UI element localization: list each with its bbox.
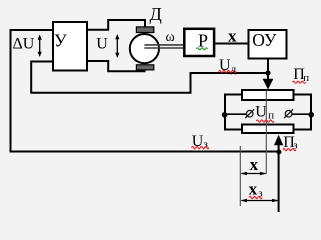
potentiometer Pp: top bar [242,90,294,100]
arrow dU double vertical [38,35,42,58]
node: right junction dot [308,112,314,118]
dimension x arrow [241,172,267,176]
terminal symbol right [284,109,293,118]
svg-text:ОУ: ОУ [252,30,277,50]
arrow U double vertical [115,34,119,58]
wire: left input loop and Uz line [11,30,280,152]
squiggle green under R [197,48,208,50]
wire: right bracket joining both bars [295,95,312,130]
amplifier box U (У) [53,22,87,71]
wire: x from R to OU [215,43,248,45]
svg-text:д: д [231,63,237,75]
wire: right tap to terminal [292,113,311,115]
dimension xz arrow [241,199,279,203]
svg-text:U: U [255,104,267,121]
svg-text:ΔU: ΔU [13,36,35,53]
reducer box R (Р) [184,29,214,56]
wire: left bracket joining both bars [225,95,241,130]
svg-text:x: x [228,27,237,46]
motor D: bottom brush [136,65,153,70]
control object box OU (ОУ) [249,30,287,59]
svg-text:x: x [250,155,259,174]
squiggle red under Ud [219,70,237,72]
arrow Pz wiper up [278,145,280,212]
motor D: circle [130,34,159,63]
squiggle red under Pz [283,149,296,151]
terminal symbol left [245,109,254,118]
svg-text:У: У [54,31,67,51]
node: left junction dot [222,112,228,118]
wire: feedback from junction to amplifier lower input [31,62,268,93]
potentiometer Pz: bottom bar [242,125,294,134]
squiggle red under xz [249,196,262,198]
node: junction dot Uz wire with Pz arrow [276,150,281,155]
node: junction dot on feedback tap [265,70,270,75]
squiggle red under Uz [192,147,210,149]
motor D: top brush [136,27,153,33]
dimension extension line left [239,146,241,206]
squiggle red under Pp [293,81,306,83]
wire: OU output down with arrow to top potentiometer [267,60,269,81]
wire: amplifier bottom output to motor bottom brush [88,61,145,71]
shaft omega: double line [144,44,184,46]
svg-text:Д: Д [150,4,162,24]
wire: left tap to terminal [225,113,246,115]
svg-text:п: п [303,72,309,84]
wire: wiper extension line through bars [265,90,267,174]
wire: amplifier top output to motor top brush [88,20,145,30]
squiggle red under Up [256,120,274,122]
svg-text:U: U [96,36,108,53]
svg-text:x: x [249,179,258,198]
svg-text:ω: ω [166,30,175,45]
